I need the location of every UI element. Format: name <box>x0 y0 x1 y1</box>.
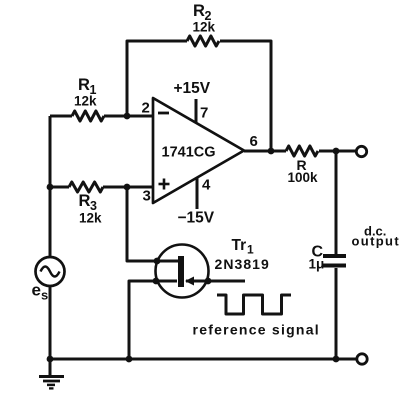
svg-text:2: 2 <box>142 100 150 117</box>
svg-text:e: e <box>32 281 41 300</box>
svg-text:3: 3 <box>143 188 151 205</box>
svg-text:reference signal: reference signal <box>193 322 320 338</box>
svg-text:1: 1 <box>247 243 254 257</box>
svg-text:R: R <box>193 2 205 20</box>
svg-text:1741CG: 1741CG <box>162 145 216 161</box>
svg-text:Tr: Tr <box>232 237 247 254</box>
svg-text:2N3819: 2N3819 <box>215 256 270 272</box>
svg-text:6: 6 <box>250 133 258 150</box>
svg-text:output: output <box>352 234 401 249</box>
svg-text:12k: 12k <box>79 211 102 226</box>
svg-text:12k: 12k <box>193 20 216 35</box>
svg-text:+15V: +15V <box>174 80 211 97</box>
svg-text:R: R <box>79 192 91 210</box>
svg-text:12k: 12k <box>74 94 97 109</box>
svg-text:R: R <box>78 76 90 94</box>
svg-text:1μ: 1μ <box>309 257 325 272</box>
svg-text:4: 4 <box>202 177 211 194</box>
svg-text:s: s <box>41 288 48 303</box>
svg-text:100k: 100k <box>288 170 319 185</box>
svg-text:7: 7 <box>200 105 208 122</box>
svg-text:−15V: −15V <box>178 210 215 227</box>
